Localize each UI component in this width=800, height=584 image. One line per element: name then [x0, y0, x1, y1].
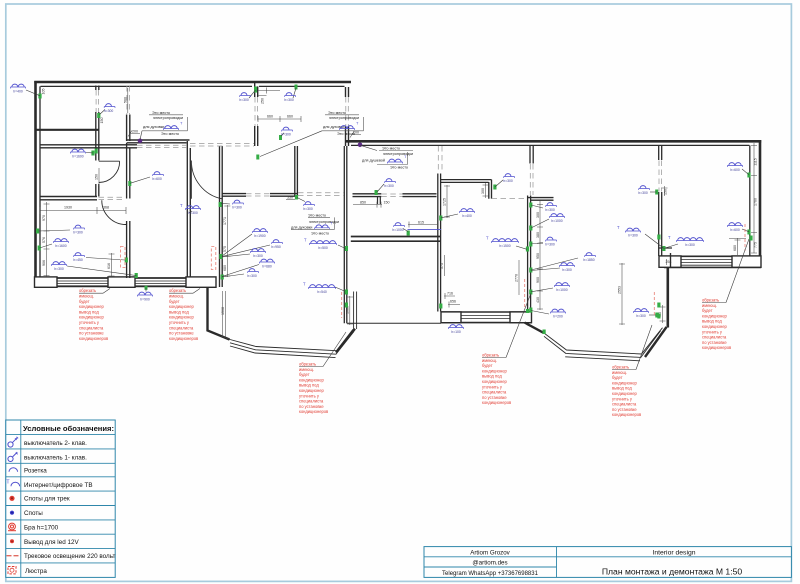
svg-text:h=1000: h=1000 [556, 288, 568, 292]
leader S24-27 chain [222, 234, 270, 277]
dim 150 bath door [98, 168, 100, 186]
svg-text:h=300: h=300 [562, 268, 572, 272]
dim 2553 right bay [619, 263, 625, 325]
svg-text:уточнить у: уточнить у [612, 396, 633, 401]
dim 1508 left bay [221, 291, 229, 339]
svg-text:имеющ.: имеющ. [299, 367, 314, 372]
dim 250/150 stub [259, 88, 281, 96]
svg-text:будет: будет [612, 375, 623, 380]
dim 560 axis [127, 88, 129, 113]
wall: corridor top inner [351, 144, 749, 146]
svg-text:775: 775 [754, 242, 758, 248]
interior: top stub x=345-349 [346, 87, 349, 146]
interior: wall y=197.5-200 x=527-553 [528, 198, 554, 201]
svg-text:h=300: h=300 [54, 267, 64, 271]
interior: corridor bottom wall band y=236-241 [351, 237, 441, 242]
svg-text:368: 368 [103, 206, 109, 210]
lamp S13 h=300 [633, 309, 648, 318]
svg-text:Условные обозначения:: Условные обозначения: [23, 424, 114, 433]
dashed top middle room [190, 143, 254, 146]
svg-text:кондиционер: кондиционер [299, 388, 324, 393]
tv socket S40 h=500 [304, 238, 337, 251]
lamp S20 h=450 [73, 253, 84, 263]
svg-text:обрезать: обрезать [169, 288, 186, 293]
dim kitchen jog 300 [483, 183, 489, 198]
callout box C [360, 145, 413, 169]
lamp S17 h=600 [152, 172, 163, 182]
svg-text:специалиста: специалиста [612, 402, 637, 407]
right bay chamfer right thick [645, 327, 667, 357]
svg-text:кондиционер: кондиционер [482, 368, 507, 373]
svg-text:для духовки: для духовки [143, 125, 164, 129]
svg-text:уточнить у: уточнить у [79, 320, 100, 325]
svg-text:h=200: h=200 [553, 315, 563, 319]
svg-text:h=1850: h=1850 [583, 258, 595, 262]
svg-text:560: 560 [123, 97, 127, 103]
left bay: left vertical thick [208, 287, 230, 340]
interior: top stub x=254-258 [255, 82, 258, 146]
dim 1725 kitchen left [444, 185, 450, 218]
dashed corridor right [298, 193, 344, 196]
right bay chamfer left thick [525, 323, 544, 333]
socket S32 h=900 [137, 292, 152, 301]
leader S43 [403, 229, 408, 232]
lamp S30d h=1850 [583, 253, 595, 263]
svg-text:Это место: Это место [390, 166, 408, 170]
leader S23 [221, 202, 230, 205]
svg-text:300: 300 [481, 188, 485, 194]
interior: kitchen left wall x=437-441 [438, 174, 441, 312]
svg-text:для душевой: для душевой [362, 159, 385, 163]
svg-text:будет: будет [79, 299, 90, 304]
socket S27 h=300 [247, 269, 258, 279]
interior: kitchen top wall [441, 180, 492, 183]
svg-text:Интернет/цифровое ТВ: Интернет/цифровое ТВ [24, 482, 93, 489]
tv socket S39 h=500 [303, 282, 336, 295]
svg-text:1508: 1508 [221, 307, 225, 315]
dashed corridor door opening [381, 194, 402, 196]
svg-text:Это место: Это место [308, 213, 326, 217]
leader S30a [531, 205, 543, 208]
svg-text:кондиционеров: кондиционеров [79, 336, 108, 341]
svg-text:h=300: h=300 [281, 133, 291, 137]
leader S19 [40, 244, 53, 248]
leader S18 [39, 230, 71, 231]
svg-text:Artiom Grozov: Artiom Grozov [470, 549, 510, 556]
wall: left exterior inner [39, 86, 41, 277]
svg-text:кондиционер: кондиционер [169, 304, 194, 309]
blue wire line corridor [408, 229, 442, 231]
kitchen bottom band outlines [441, 312, 532, 323]
svg-text:вывод под: вывод под [79, 309, 99, 314]
svg-text:Споты для трек: Споты для трек [24, 496, 70, 503]
lamp S42 h=300 [384, 179, 395, 189]
socket S25b h=300 [250, 249, 265, 258]
socket S19 h=400 [53, 239, 68, 248]
legend row3 icon socket [9, 468, 18, 472]
svg-text:250: 250 [261, 98, 265, 104]
leader S16 [86, 152, 93, 154]
svg-text:h=540: h=540 [317, 290, 327, 294]
wall: living room left x=344-347 [344, 146, 347, 323]
svg-text:кондиционеров: кондиционеров [299, 409, 328, 414]
svg-text:уточнить у: уточнить у [299, 393, 320, 398]
leader S22 [189, 211, 192, 213]
lamp S30c h=300 [545, 237, 556, 247]
red dashed kitchen right [524, 279, 526, 309]
dim x=445 room verticals [444, 255, 446, 276]
svg-text:h=300: h=300 [303, 207, 313, 211]
lamp S26 h=680 [259, 259, 274, 268]
leader S11 [742, 169, 749, 175]
svg-text:T: T [486, 236, 489, 241]
bottom-right piers (outlined) [659, 256, 681, 267]
leader S29 [516, 246, 527, 249]
svg-text:h=600: h=600 [730, 228, 740, 232]
interior: door jamb x=377-381 [378, 197, 381, 204]
socket S30b h=1000 [549, 214, 564, 223]
svg-text:150: 150 [95, 174, 99, 180]
svg-text:h=600: h=600 [730, 168, 740, 172]
svg-text:150: 150 [664, 189, 668, 195]
interior: corridor left wall x=219-222 [220, 146, 223, 287]
svg-text:900: 900 [536, 277, 540, 283]
bottom-right band outlines [659, 256, 761, 267]
leader S5 [293, 88, 296, 98]
red note 2 [169, 288, 200, 341]
svg-text:T: T [180, 203, 183, 208]
dashed axis stub 346 [346, 97, 349, 126]
svg-text:специалиста: специалиста [79, 325, 104, 330]
svg-text:кондиционеров: кондиционеров [612, 412, 641, 417]
svg-text:h=950: h=950 [271, 245, 281, 249]
svg-text:h=300: h=300 [384, 184, 394, 188]
dim 970 left wall [44, 202, 50, 277]
svg-text:по установке: по установке [612, 407, 637, 412]
svg-text:электропроводки: электропроводки [153, 116, 183, 120]
svg-text:Это место: Это место [382, 147, 400, 151]
socket S31 h=100 [448, 325, 463, 334]
svg-text:@artiom.des: @artiom.des [472, 560, 507, 567]
svg-text:h=1500: h=1500 [499, 244, 511, 248]
leader S30d [531, 258, 578, 270]
svg-text:h=300: h=300 [253, 254, 263, 258]
svg-text:Telegram WhatsApp +37367698: Telegram WhatsApp +37367698831 [442, 571, 539, 577]
svg-text:электропроводки: электропроводки [329, 116, 359, 120]
svg-text:Это место: Это место [328, 111, 346, 115]
svg-text:Это место: Это место [337, 132, 355, 136]
svg-text:имеющ.: имеющ. [482, 358, 497, 363]
dim 850/150 corridor [353, 202, 382, 208]
legend row4 icon tv [6, 479, 19, 486]
svg-text:1725: 1725 [443, 198, 447, 206]
leader S15 [645, 234, 664, 248]
legend row1 icon switch2 [8, 437, 18, 447]
dim 254 lower right [666, 259, 668, 265]
leader S40 [338, 245, 346, 249]
dim 716 kitchen bottom [444, 293, 455, 299]
svg-text:105: 105 [42, 89, 46, 95]
tv socket S14 h=300 [668, 235, 704, 247]
leader S42 [377, 184, 384, 192]
dim 680 right window [729, 238, 746, 255]
socket S2 h=300 [104, 104, 115, 114]
red note 5 [612, 325, 652, 417]
dim 660-660 top room [258, 116, 301, 122]
svg-text:вывод под: вывод под [169, 309, 189, 314]
window glazing bottom-left [57, 281, 186, 284]
svg-text:h=600: h=600 [152, 177, 162, 181]
svg-text:850: 850 [360, 200, 366, 204]
svg-text:1771: 1771 [223, 217, 227, 225]
interior: wall x=126-130 below door [127, 221, 130, 278]
svg-text:680: 680 [223, 265, 227, 271]
svg-text:T: T [303, 282, 306, 287]
svg-text:716: 716 [447, 292, 453, 296]
leader S39 [335, 287, 345, 291]
svg-text:h=400: h=400 [462, 214, 472, 218]
lamp S25 h=300 [252, 229, 267, 238]
svg-text:для духовки: для духовки [291, 225, 312, 229]
svg-text:150: 150 [384, 200, 390, 204]
svg-text:h=300: h=300 [232, 206, 242, 210]
left bay right pier (window) [354, 292, 357, 330]
svg-text:254: 254 [666, 260, 672, 264]
leader S4 [249, 90, 256, 98]
svg-text:T: T [668, 235, 671, 240]
svg-text:380: 380 [536, 232, 540, 238]
svg-text:обрезать: обрезать [612, 365, 629, 370]
interior: corridor south wall right seg [403, 194, 437, 197]
dashed axis x=660 [659, 161, 662, 192]
living room bottom thin line [347, 322, 441, 324]
leader S32 [145, 288, 147, 292]
svg-text:по установке: по установке [702, 340, 727, 345]
red dashed rect hall left [211, 247, 216, 270]
red note 4 [482, 293, 531, 405]
svg-text:уточнить у: уточнить у [702, 329, 723, 334]
svg-text:h=400: h=400 [13, 90, 23, 94]
svg-text:специалиста: специалиста [299, 399, 324, 404]
svg-text:h=1000: h=1000 [551, 219, 563, 223]
socket S12 h=600 [727, 223, 742, 232]
red dashed rect left room [121, 247, 126, 268]
svg-text:h=300: h=300 [284, 98, 294, 102]
interior: wall x=294.5-297.5 [295, 146, 298, 196]
leader S1 [26, 90, 40, 96]
svg-text:имеющ.: имеющ. [169, 294, 184, 299]
dashed kitchen top axis [438, 146, 442, 173]
svg-text:обрезать: обрезать [299, 362, 316, 367]
junction dot hall [138, 139, 143, 144]
svg-text:970: 970 [42, 215, 46, 221]
svg-text:906: 906 [42, 260, 46, 266]
socket S1 h=400 [10, 84, 25, 93]
svg-text:h=300: h=300 [545, 208, 555, 212]
svg-text:выключатель 2- клав.: выключатель 2- клав. [24, 440, 87, 447]
interior: hallway right wall x=126-130 upper [127, 115, 130, 142]
svg-text:1930: 1930 [64, 206, 72, 210]
interior: bathroom bottom wall y=129.8 [36, 129, 99, 131]
svg-text:1115: 1115 [754, 158, 758, 165]
svg-text:специалиста: специалиста [702, 335, 727, 340]
leader S30c [531, 243, 543, 245]
svg-text:h=300: h=300 [685, 243, 695, 247]
socket S30f h=1000 [554, 283, 569, 292]
svg-text:430: 430 [536, 297, 540, 303]
lamp S10 h=300 [638, 186, 649, 196]
svg-text:по установке: по установке [482, 395, 507, 400]
leader S13 [649, 314, 656, 316]
dashed axis bathroom [96, 90, 99, 112]
title block outer box [424, 547, 791, 578]
svg-text:Бра h=1700: Бра h=1700 [24, 525, 59, 532]
dashed kitchen opening [492, 197, 528, 199]
svg-text:обрезать: обрезать [482, 353, 499, 358]
svg-text:План монтажа и демонтажа М 1:5: План монтажа и демонтажа М 1:50 [602, 567, 743, 577]
svg-text:кондиционер: кондиционер [79, 304, 104, 309]
svg-text:обрезать: обрезать [702, 298, 719, 303]
svg-text:Трековое освещение 220 вольт: Трековое освещение 220 вольт [24, 553, 115, 560]
svg-text:электропроводки: электропроводки [309, 220, 339, 224]
svg-text:300: 300 [536, 212, 540, 218]
dashed door hall horizontal [137, 145, 187, 147]
svg-text:специалиста: специалиста [482, 390, 507, 395]
interior: kitchen right wall x=527-531 [528, 196, 531, 313]
svg-text:2553: 2553 [618, 286, 622, 294]
svg-text:кондиционер: кондиционер [299, 377, 324, 382]
dim right wall vertical [751, 143, 757, 253]
lamp S9 h=300 [503, 174, 514, 184]
svg-text:h=300: h=300 [503, 179, 513, 183]
socket S30g h=200 [550, 309, 565, 318]
svg-text:уточнить у: уточнить у [482, 384, 503, 389]
svg-text:Люстра: Люстра [25, 568, 47, 575]
svg-text:576: 576 [42, 237, 46, 243]
legend row8 icon led dot [10, 539, 14, 543]
interior: wall x=658-662 lower [659, 192, 662, 256]
junction dot corridor [358, 143, 363, 148]
svg-text:h=300: h=300 [247, 274, 257, 278]
green mark nodes [38, 94, 41, 99]
svg-text:680: 680 [733, 245, 737, 251]
callout box D [291, 213, 339, 235]
svg-text:h=1600: h=1600 [55, 244, 67, 248]
svg-text:будет: будет [702, 308, 713, 313]
svg-text:по установке: по установке [299, 404, 324, 409]
svg-text:будет: будет [169, 299, 180, 304]
red dashed lower right a [653, 292, 655, 316]
svg-text:616: 616 [107, 263, 111, 269]
svg-text:Это место: Это место [311, 231, 329, 235]
leader S30f [531, 288, 553, 292]
tv socket S22 h=300 [180, 203, 201, 215]
legend row10 icon lustra [8, 567, 16, 574]
svg-text:h=100: h=100 [451, 330, 461, 334]
svg-text:имеющ.: имеющ. [702, 303, 717, 308]
svg-text:вывод под: вывод под [299, 383, 319, 388]
svg-text:кондиционеров: кондиционеров [169, 336, 198, 341]
svg-text:h=300: h=300 [638, 191, 648, 195]
interior: wall x=658-662 upper stub [659, 146, 662, 160]
svg-text:h=1900: h=1900 [254, 234, 266, 238]
dashed axis stub 255 [255, 97, 258, 126]
legend row2 icon switch1 [8, 452, 18, 461]
leader S30e [531, 268, 560, 271]
dim 200 hall [128, 131, 140, 137]
interior: hallway right wall x=126-130 lower [127, 143, 130, 199]
title block row lines left [424, 557, 791, 567]
svg-text:электропроводки: электропроводки [383, 152, 413, 156]
socket S21 h=300 [51, 262, 66, 271]
leader S30g [531, 311, 549, 315]
callout box A [140, 111, 188, 140]
dim 350 hall corner [286, 199, 295, 201]
svg-text:h=500: h=500 [318, 246, 328, 250]
svg-text:кондиционер: кондиционер [482, 379, 507, 384]
svg-text:вывод под: вывод под [702, 319, 722, 324]
dashed corridor door [246, 194, 270, 196]
red note 1 [79, 288, 110, 341]
leader S41 [297, 198, 305, 202]
interior: corridor walls y=193-196.5 [222, 194, 298, 197]
right bay window lines [527, 325, 663, 355]
svg-text:Споты: Споты [24, 510, 43, 517]
bottom-right window glazing [681, 260, 732, 266]
svg-text:кондиционер: кондиционер [612, 380, 637, 385]
red dashed right wall [744, 224, 746, 251]
lamp S18 h=300 [73, 225, 84, 235]
leader S2 [100, 110, 106, 115]
interior: vertical wall x=95.8-98.8 top stub [96, 86, 99, 91]
interior: hall wall band y=144.5-148 x=33-137 [40, 145, 137, 148]
leader S30b [531, 219, 549, 228]
svg-text:выключатель 1- клав.: выключатель 1- клав. [24, 454, 87, 461]
svg-text:h=1000: h=1000 [392, 228, 404, 232]
socket S16 h=1600 [70, 149, 85, 158]
dim 1930/368 left rooms [40, 207, 126, 214]
callout box B [260, 111, 364, 157]
wall: left-block top inner [41, 85, 345, 87]
svg-text:специалиста: специалиста [169, 325, 194, 330]
dim 2770 kitchen right [518, 260, 520, 295]
title block divider vertical [556, 547, 558, 578]
interior: vertical wall x=95.8-98.8 mid [96, 112, 99, 197]
svg-text:h=300: h=300 [239, 98, 249, 102]
dim 150/500 near stub658 [662, 186, 668, 196]
lamp S5 h=300 [284, 93, 295, 103]
leader S21 [67, 266, 136, 276]
dim hall vertical x=227 [224, 205, 230, 277]
svg-text:h=300: h=300 [628, 234, 638, 238]
lamp S24 h=950 [271, 240, 282, 250]
interior: corridor south wall y=193.7-196.7 left seg [353, 194, 382, 197]
svg-text:h=300: h=300 [104, 109, 114, 113]
wall: left exterior outer [34, 81, 37, 288]
dashed door lower-left room [99, 197, 123, 199]
dim 1080 pier [347, 296, 353, 325]
leader S35 [441, 214, 458, 218]
lamp S43 h=1000 [392, 223, 404, 233]
svg-text:350: 350 [287, 196, 293, 200]
svg-text:2770: 2770 [515, 274, 519, 282]
interior: kitchen top jog vertical [489, 180, 492, 199]
leader S6 [281, 133, 284, 136]
svg-text:имеющ.: имеющ. [612, 370, 627, 375]
right bay right vertical thick [666, 268, 669, 328]
leader S9 [495, 180, 503, 187]
wall: left-block top outer [34, 81, 351, 84]
